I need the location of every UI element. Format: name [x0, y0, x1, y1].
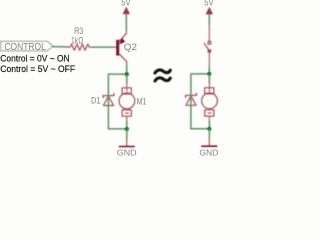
resistor R3	[67, 44, 92, 50]
junction node bottom left	[125, 127, 129, 131]
junction node bottom right	[207, 127, 211, 131]
svg-text:Control = 0V ~ ON: Control = 0V ~ ON	[0, 53, 69, 64]
wire node to motor	[126, 74, 128, 82]
wire top right circuit	[191, 74, 209, 92]
net label tag CONTROL	[1, 41, 54, 51]
svg-text:GND: GND	[117, 148, 137, 157]
motor right	[202, 82, 218, 121]
wire diode to bottom	[107, 92, 109, 129]
svg-text:D1: D1	[91, 96, 100, 107]
supply 5V left arrow	[123, 8, 129, 15]
junction node top right	[207, 72, 211, 76]
wire motor to bottom node right	[208, 121, 210, 129]
wire right diode to bottom	[190, 91, 192, 128]
approx equals symbol	[155, 70, 170, 81]
transistor Q2 (PNP)	[113, 29, 127, 67]
switch S1	[204, 42, 211, 68]
svg-text:1kΩ: 1kΩ	[71, 36, 83, 47]
wire node to gnd right	[208, 129, 210, 137]
svg-text:GND: GND	[199, 147, 218, 157]
wire collector to node	[126, 66, 128, 74]
wire resistor to base	[93, 46, 113, 48]
ground symbol left	[119, 138, 134, 147]
diode right (schottky)	[186, 93, 197, 105]
wire switch to node	[208, 67, 210, 74]
wire node to motor right	[208, 74, 210, 83]
supply 5V right arrow	[206, 8, 212, 15]
wire 5V to switch	[208, 14, 210, 24]
wire 5V to emitter	[125, 14, 127, 29]
wire motor to bottom node	[126, 121, 128, 129]
wire to switch top pin	[208, 24, 210, 41]
wire node to gnd	[126, 129, 128, 138]
wire top left circuit	[108, 74, 126, 92]
motor M1	[119, 82, 135, 121]
svg-text:CONTROL: CONTROL	[4, 42, 46, 53]
svg-text:5V: 5V	[121, 0, 131, 8]
junction node top left	[125, 72, 129, 76]
wire tag to resistor	[53, 46, 68, 48]
ground symbol right	[202, 136, 217, 146]
svg-text:Control = 5V ~ OFF: Control = 5V ~ OFF	[0, 64, 75, 75]
svg-text:M1: M1	[137, 96, 147, 107]
svg-text:Q2: Q2	[124, 42, 137, 53]
svg-text:5V: 5V	[204, 0, 214, 9]
diode D1 (schottky)	[103, 93, 114, 105]
wire bottom left circuit	[108, 128, 126, 130]
wire bottom right circuit	[191, 128, 210, 130]
